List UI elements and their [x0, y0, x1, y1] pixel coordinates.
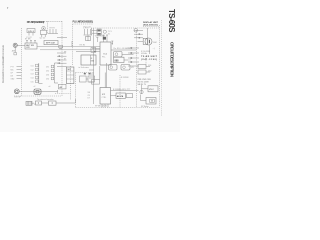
- svg-text:(X54-3050/21): (X54-3050/21): [143, 24, 158, 27]
- svg-text:50M: 50M: [153, 42, 157, 44]
- connector column 1 pins: [36, 64, 39, 82]
- svg-text:PLL UNIT (X50-3030/21): PLL UNIT (X50-3030/21): [73, 20, 94, 24]
- wire into driver: [138, 41, 144, 43]
- svg-text:C52: C52: [31, 70, 34, 72]
- resistor ladder R pins: [48, 28, 59, 34]
- speaker out box: [127, 94, 133, 98]
- edge pin stubs top: [92, 28, 97, 35]
- svg-text:D52: D52: [148, 71, 151, 73]
- wire speaker line: [19, 90, 57, 92]
- dark component at pin: [103, 37, 106, 40]
- svg-text:C55: C55: [31, 81, 34, 83]
- svg-text:AF PA: AF PA: [117, 95, 124, 98]
- wire CPU long output: [111, 49, 137, 51]
- speaker box bottom right: [146, 98, 156, 105]
- svg-text:8T 8R: 8T 8R: [25, 39, 31, 41]
- svg-text:to 2nd mixer: to 2nd mixer: [79, 66, 90, 69]
- ticks on interconnect wires: [59, 55, 61, 64]
- rf input wires: [134, 31, 143, 38]
- ticks on rf wires: [139, 33, 141, 38]
- CPU block: [100, 42, 111, 65]
- crystal filter box: [27, 29, 35, 33]
- right pin rows: [128, 48, 139, 66]
- svg-text:Rx: 81.6 - 83.6MHz: Rx: 81.6 - 83.6MHz: [114, 48, 130, 50]
- svg-text:D51: D51: [46, 67, 49, 69]
- svg-text:C54: C54: [31, 78, 34, 80]
- PLL unit dashed edges: [73, 24, 94, 66]
- svg-text:D52: D52: [46, 71, 49, 73]
- antenna coil circle: [134, 29, 138, 33]
- connector pin rows (left edge): [17, 67, 22, 79]
- svg-text:Q1 D2: Q1 D2: [40, 38, 47, 40]
- svg-text:CTRL: CTRL: [102, 97, 107, 99]
- svg-text:CIRCUIT DESCRIPTION: CIRCUIT DESCRIPTION: [169, 42, 174, 77]
- svg-text:RF UNIT (X44-3100/21): RF UNIT (X44-3100/21): [27, 20, 45, 24]
- antenna jack J1 (double circle): [13, 43, 17, 47]
- unit box RF UNIT (dashed outline): [14, 21, 62, 96]
- xtal box: [97, 29, 101, 35]
- wire main RX bus: [37, 46, 100, 48]
- ladder cluster above: [84, 29, 93, 41]
- wire display out: [124, 59, 128, 61]
- svg-text:Prescaler: Prescaler: [84, 27, 92, 29]
- AF out box: [116, 93, 126, 98]
- bus line 2: [53, 63, 55, 83]
- carrier box A: [80, 76, 87, 82]
- svg-text:C53: C53: [31, 74, 34, 76]
- display segment box: [114, 57, 125, 62]
- svg-text:8.3745M: 8.3745M: [121, 77, 129, 79]
- svg-text:RX IN: RX IN: [80, 45, 86, 47]
- filter box on mic chain: [49, 101, 57, 105]
- amp box Q1: [41, 30, 47, 34]
- end tick: [57, 90, 59, 93]
- rounded box R1: [109, 65, 118, 71]
- rounded box R2: [121, 65, 130, 71]
- svg-text:SS RL TL: SS RL TL: [138, 84, 147, 86]
- wire transistor top: [147, 28, 149, 38]
- attenuator on bus: [59, 45, 63, 48]
- wire antenna to filter: [17, 45, 25, 47]
- svg-text:EXT SP: EXT SP: [15, 97, 22, 99]
- left edge wires to CPU: [89, 48, 100, 82]
- svg-text:VCO 81.6M: VCO 81.6M: [95, 35, 105, 37]
- svg-text:D53: D53: [46, 75, 49, 77]
- speaker jack (double circle): [14, 89, 19, 94]
- filter box D: [138, 65, 146, 69]
- mic element box (hatched): [26, 101, 32, 105]
- coil symbol: [32, 103, 35, 104]
- wire vco out: [122, 53, 133, 55]
- connector column 2 pins: [51, 65, 54, 80]
- supply stubs above LPF: [26, 41, 36, 44]
- right margin dashed separator: [161, 20, 163, 116]
- speaker plug symbol: [34, 89, 41, 94]
- wire out of RF sub-box: [57, 37, 67, 39]
- wire between carrier boxes: [86, 78, 88, 80]
- svg-text:SP 8ohm: SP 8ohm: [141, 106, 149, 108]
- matching component: [14, 53, 17, 55]
- svg-text:Downloaded from www.Manualslib: Downloaded from www.Manualslib.com manua…: [2, 44, 5, 83]
- svg-text:BPF 50M: BPF 50M: [46, 43, 55, 45]
- CPU top pins: [96, 35, 108, 42]
- transistor internal electrodes: [148, 39, 150, 44]
- CPU2 block lower: [100, 88, 111, 105]
- arrow pin right of CPU: [111, 41, 113, 45]
- unit box TX-RX (dashed outline): [55, 25, 160, 108]
- interconnect wires crossing unit edge: [57, 53, 67, 66]
- mixer circle: [42, 27, 46, 31]
- wire mic chain: [42, 102, 49, 104]
- svg-text:455kHz: 455kHz: [141, 53, 147, 55]
- wire riser pair: [99, 66, 101, 80]
- svg-text:SP MIC 13.8V: SP MIC 13.8V: [95, 106, 108, 108]
- wire down from R1: [106, 63, 108, 88]
- svg-text:x4: x4: [49, 86, 51, 88]
- wire riser to TX unit: [75, 99, 77, 103]
- transistor Q10 circle: [145, 38, 152, 45]
- CPU2 bottom stubs: [102, 104, 108, 108]
- pin tick components: [131, 47, 133, 63]
- svg-text:D54: D54: [46, 79, 49, 81]
- svg-text:8.374MHz KEY, PTT: 8.374MHz KEY, PTT: [113, 89, 131, 91]
- svg-text:D51: D51: [148, 65, 151, 67]
- wire into speaker box: [141, 100, 147, 102]
- svg-text:C51: C51: [31, 66, 34, 68]
- svg-text:x2: x2: [34, 86, 36, 88]
- svg-text:(X41-3190): (X41-3190): [141, 58, 157, 61]
- driver box: [143, 38, 148, 44]
- buffer box on unit edge: [91, 48, 96, 53]
- svg-text:TX-RX UNIT: TX-RX UNIT: [141, 56, 158, 58]
- final box F: [148, 86, 158, 92]
- svg-text:R R R: R R R: [50, 28, 56, 30]
- wires from boxes D E: [146, 66, 150, 68]
- wire to AF out box: [111, 95, 117, 97]
- wire into box F: [142, 88, 149, 90]
- carrier box B: [88, 76, 95, 82]
- svg-text:TS-60S: TS-60S: [167, 9, 176, 33]
- connector column 2 labels: [46, 67, 49, 81]
- svg-text:PTT: PTT: [11, 66, 14, 68]
- connector column 1 labels: [31, 66, 34, 84]
- wire riser to CPU2: [104, 73, 106, 88]
- wire antenna drop: [14, 47, 16, 52]
- trimmer circle: [103, 30, 106, 33]
- BPF box: [44, 41, 58, 45]
- tick on TX bus: [59, 48, 62, 50]
- IF box: [81, 55, 96, 65]
- shift reg box: [92, 80, 100, 85]
- bus line 1: [38, 63, 40, 84]
- filter box E: [138, 70, 146, 74]
- varistor circle: [140, 90, 143, 93]
- vco box with circle: [114, 52, 123, 57]
- mic amp box: [36, 101, 42, 105]
- wire from left unit at y51: [76, 51, 100, 53]
- wire long output: [111, 90, 139, 92]
- wire TX bus: [40, 49, 100, 51]
- svg-text:8.83: 8.83: [91, 61, 94, 63]
- wire stubs below crystal filter: [28, 33, 30, 36]
- LPF box: [25, 43, 37, 49]
- wire transistor collector down: [149, 45, 151, 54]
- unit edge solid line: [93, 28, 95, 104]
- svg-text:888: 888: [115, 59, 120, 62]
- mixer column box: [67, 67, 74, 84]
- diode marks: [84, 73, 86, 75]
- wire riser: [71, 41, 73, 47]
- AF box: [59, 84, 67, 89]
